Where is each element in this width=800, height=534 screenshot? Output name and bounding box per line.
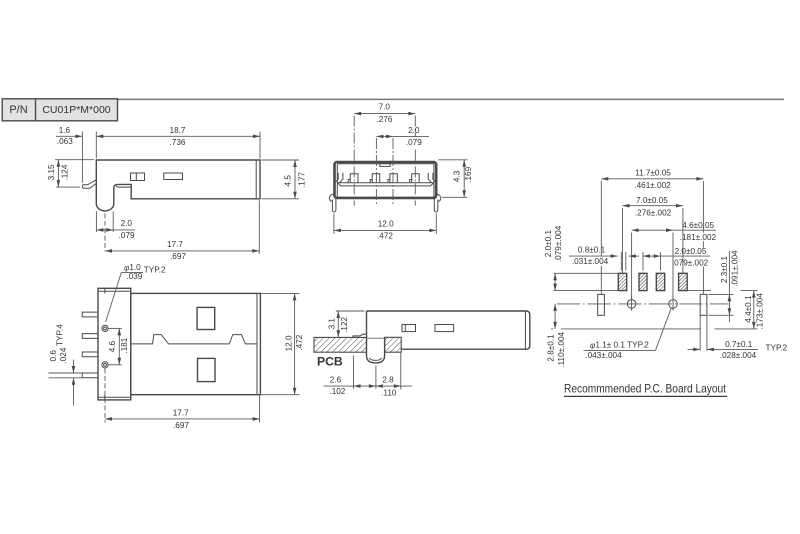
hole right xyxy=(669,300,678,309)
dim 2.8±0.1 / .110±.004 (left lower) xyxy=(554,304,556,329)
PCB cross-section left xyxy=(314,337,367,352)
dim 4.6±0.05 / .181±.002 xyxy=(631,233,633,300)
svg-text:.181: .181 xyxy=(120,337,129,353)
rivet hole bottom xyxy=(102,362,108,368)
dim 3.15 / .124 xyxy=(55,159,94,161)
svg-text:2.0±0.1: 2.0±0.1 xyxy=(544,230,553,258)
shell window 2 xyxy=(435,325,454,332)
dim 11.7±0.05 / .461±.002 xyxy=(600,181,602,294)
svg-text:.697: .697 xyxy=(170,252,186,261)
svg-text:.697: .697 xyxy=(173,421,189,430)
dim 0.8±0.1 / .031±.004 xyxy=(620,252,622,271)
dim 4.5 / .177 xyxy=(262,159,300,161)
right solder leg xyxy=(434,194,441,212)
svg-text:1.6: 1.6 xyxy=(59,126,71,135)
pin centerline 2 xyxy=(375,138,377,206)
svg-text:TYP.2: TYP.2 xyxy=(766,343,788,352)
contact tab 4 xyxy=(410,174,420,183)
svg-text:TYP.2: TYP.2 xyxy=(144,265,166,274)
horizontal centerline xyxy=(557,303,729,305)
rivet hole top xyxy=(102,325,108,331)
svg-text:TYP.4: TYP.4 xyxy=(55,324,64,346)
svg-text:.079±.002: .079±.002 xyxy=(672,258,709,267)
part number table xyxy=(2,99,117,121)
svg-text:2.6: 2.6 xyxy=(330,376,342,385)
svg-text:.736: .736 xyxy=(170,138,186,147)
svg-text:7.0: 7.0 xyxy=(379,103,391,112)
pads top/bottom reference lines xyxy=(554,272,619,274)
retention hook xyxy=(82,180,96,189)
rear holder block xyxy=(98,288,131,400)
svg-text:2.3±0.1: 2.3±0.1 xyxy=(720,255,729,283)
pin 4 with extended edges xyxy=(82,373,98,378)
dim 2.0 / .079 xyxy=(376,135,429,137)
slot right xyxy=(700,294,707,315)
svg-text:11.7±0.05: 11.7±0.05 xyxy=(635,169,671,178)
step metal-thickness line xyxy=(116,186,131,187)
svg-text:Recommmended P.C. Board Layout: Recommmended P.C. Board Layout xyxy=(564,382,727,395)
dim 18.7 / .736 xyxy=(95,132,97,159)
svg-text:φ1.0: φ1.0 xyxy=(124,263,141,272)
pin 2 xyxy=(82,334,98,339)
svg-text:4.6±0.05: 4.6±0.05 xyxy=(682,221,714,230)
left solder leg xyxy=(329,194,336,212)
svg-text:.063: .063 xyxy=(57,137,73,146)
dim 4.3 / .169 xyxy=(439,159,468,161)
pin centerline 1 xyxy=(353,116,355,206)
tongue ledge xyxy=(337,183,434,186)
dim 2.0 / .079 (tail width) xyxy=(95,211,97,232)
svg-text:.472: .472 xyxy=(295,334,304,350)
svg-text:3.1: 3.1 xyxy=(328,318,337,330)
svg-text:.472: .472 xyxy=(377,231,393,240)
contact tab 2 xyxy=(370,174,380,183)
pad 2 xyxy=(639,273,647,290)
dim 17.7 / .697 xyxy=(258,200,260,254)
PCB cross-section right xyxy=(385,337,402,352)
svg-text:2.8±0.1: 2.8±0.1 xyxy=(546,334,555,362)
separator line xyxy=(2,98,784,100)
svg-text:17.7: 17.7 xyxy=(173,409,189,418)
svg-text:.181±.002: .181±.002 xyxy=(680,233,717,242)
dim 17.7 / .697 xyxy=(104,369,106,423)
svg-text:.122: .122 xyxy=(340,316,349,332)
svg-text:φ1.1± 0.1 TYP.2: φ1.1± 0.1 TYP.2 xyxy=(590,341,649,350)
PCB edge seen through hole xyxy=(367,337,384,339)
pad 4 xyxy=(679,273,688,290)
pad 3 xyxy=(656,273,664,290)
svg-text:2.0±0.05: 2.0±0.05 xyxy=(675,247,707,256)
top polarization notch xyxy=(380,163,390,166)
svg-text:4.4±0.1: 4.4±0.1 xyxy=(744,295,753,323)
shell window 2 xyxy=(164,173,183,180)
dim 2.6 / .102 xyxy=(353,356,355,389)
svg-text:2.0: 2.0 xyxy=(408,126,420,135)
svg-text:7.0±0.05: 7.0±0.05 xyxy=(636,196,668,205)
shell window lower xyxy=(198,358,216,381)
dim 3.1 / .122 xyxy=(336,310,365,312)
right corner spring xyxy=(428,173,436,183)
pad 1 xyxy=(618,273,626,290)
slot left xyxy=(598,294,605,315)
dim 12.0 / .472 xyxy=(333,214,335,235)
shell window 1 xyxy=(402,325,416,332)
svg-text:3.15: 3.15 xyxy=(47,164,56,180)
svg-text:.031±.004: .031±.004 xyxy=(572,257,609,266)
svg-text:.110±.004: .110±.004 xyxy=(557,331,566,367)
svg-text:4.6: 4.6 xyxy=(108,340,117,352)
svg-text:4.5: 4.5 xyxy=(284,175,293,187)
svg-text:.079: .079 xyxy=(119,231,135,240)
tail centerline xyxy=(104,213,106,251)
svg-text:.276±.002: .276±.002 xyxy=(635,209,672,218)
bent solder tail xyxy=(367,311,385,363)
svg-text:.079: .079 xyxy=(406,138,422,147)
svg-text:.079±.004: .079±.004 xyxy=(554,225,563,262)
svg-text:.091±.004: .091±.004 xyxy=(731,250,740,287)
shell window upper xyxy=(197,307,215,329)
svg-text:.110: .110 xyxy=(381,389,397,398)
pin 3 xyxy=(82,352,98,357)
svg-text:PCB: PCB xyxy=(317,354,343,368)
svg-text:.024: .024 xyxy=(59,347,68,363)
dim 7.0 / .276 xyxy=(354,113,415,115)
dim 0.7±0.1 / .028±.004 TYP.2 (slot width) xyxy=(699,315,701,351)
svg-text:P/N: P/N xyxy=(9,104,27,116)
svg-text:.043±.004: .043±.004 xyxy=(585,351,622,360)
svg-text:4.3: 4.3 xyxy=(453,170,462,182)
svg-text:18.7: 18.7 xyxy=(170,126,186,135)
dim 2.0±0.05 / .079±.002 xyxy=(642,252,644,271)
dim 4.4±0.1 / .173±.004 xyxy=(741,290,758,292)
end-cap line xyxy=(524,311,526,349)
svg-text:2.8: 2.8 xyxy=(382,375,394,384)
bottom reference line xyxy=(551,328,553,330)
contact tab 1 xyxy=(348,174,358,183)
svg-text:.028±.004: .028±.004 xyxy=(720,351,757,360)
svg-text:17.7: 17.7 xyxy=(167,240,183,249)
plug body outline xyxy=(96,160,260,211)
svg-text:12.0: 12.0 xyxy=(285,335,294,351)
shell outer face xyxy=(335,162,437,198)
svg-text:CU01P*M*000: CU01P*M*000 xyxy=(42,104,110,116)
dim 0.6 / .024 TYP.4 (pin thickness) xyxy=(73,360,75,374)
crimp seam line with lances xyxy=(131,335,257,344)
dim 12.0 / .472 xyxy=(260,292,299,294)
svg-text:.461±.002: .461±.002 xyxy=(634,181,671,190)
dim 7.0±0.05 / .276±.002 xyxy=(622,208,624,273)
svg-text:.102: .102 xyxy=(329,387,345,396)
shell body rectangle xyxy=(131,293,261,394)
dim 2.8 / .110 xyxy=(400,353,402,390)
tail inner line xyxy=(369,358,381,361)
svg-text:0.7±0.1: 0.7±0.1 xyxy=(725,340,753,349)
svg-text:0.6: 0.6 xyxy=(49,350,58,362)
pin centerline 3 xyxy=(392,138,394,206)
svg-text:.039: .039 xyxy=(126,272,142,281)
dim 2.0±0.1 / .079±.004 (pad length, left) xyxy=(554,273,556,290)
shell window 1 xyxy=(131,173,145,181)
svg-text:.169: .169 xyxy=(464,166,473,182)
shell end-cap line xyxy=(255,160,257,199)
svg-text:0.8±0.1: 0.8±0.1 xyxy=(578,246,606,255)
retention hook xyxy=(353,334,367,337)
plug body xyxy=(367,311,530,349)
shell end-cap line xyxy=(256,293,258,394)
dim 2.3±0.1 / .091±.004 (slot length, right) xyxy=(708,293,733,295)
svg-text:12.0: 12.0 xyxy=(378,220,394,229)
contact tab 3 xyxy=(388,174,397,183)
left corner spring xyxy=(335,173,343,183)
svg-text:.173±.004: .173±.004 xyxy=(755,293,764,330)
svg-text:.177: .177 xyxy=(297,172,306,188)
pin 1 xyxy=(82,312,98,317)
hole left xyxy=(627,300,636,309)
dim 1.6 / .063 xyxy=(81,132,83,183)
dim 4.6 / .181 (hole pitch) xyxy=(109,327,122,329)
pin centerline 4 xyxy=(414,116,416,206)
shell inner face xyxy=(337,164,434,197)
svg-text:.124: .124 xyxy=(61,164,70,180)
svg-text:.276: .276 xyxy=(377,115,393,124)
svg-text:2.0: 2.0 xyxy=(121,219,133,228)
